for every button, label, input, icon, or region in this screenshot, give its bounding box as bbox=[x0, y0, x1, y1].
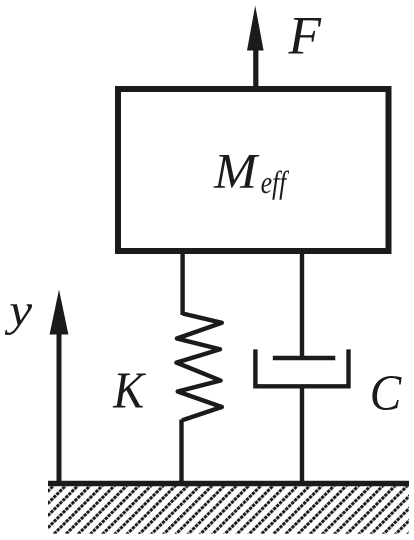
damper C piston plate bbox=[273, 356, 336, 360]
spring K zigzag bbox=[176, 314, 221, 421]
damper C rod bottom bbox=[300, 386, 304, 482]
spring K rod top bbox=[180, 251, 184, 315]
ground hatching bbox=[48, 486, 409, 533]
svg-text:K: K bbox=[112, 363, 146, 420]
svg-text:C: C bbox=[370, 365, 403, 421]
svg-text:y: y bbox=[5, 285, 33, 336]
svg-text:F: F bbox=[288, 6, 323, 66]
mass box bbox=[118, 89, 389, 251]
spring K rod bottom bbox=[179, 420, 183, 483]
damper C cylinder cup bbox=[255, 349, 348, 386]
svg-text:M: M bbox=[213, 144, 260, 199]
y axis arrow bbox=[50, 290, 69, 483]
ground line bbox=[48, 481, 409, 487]
damper C rod top bbox=[300, 251, 304, 358]
force arrow F bbox=[247, 6, 264, 89]
